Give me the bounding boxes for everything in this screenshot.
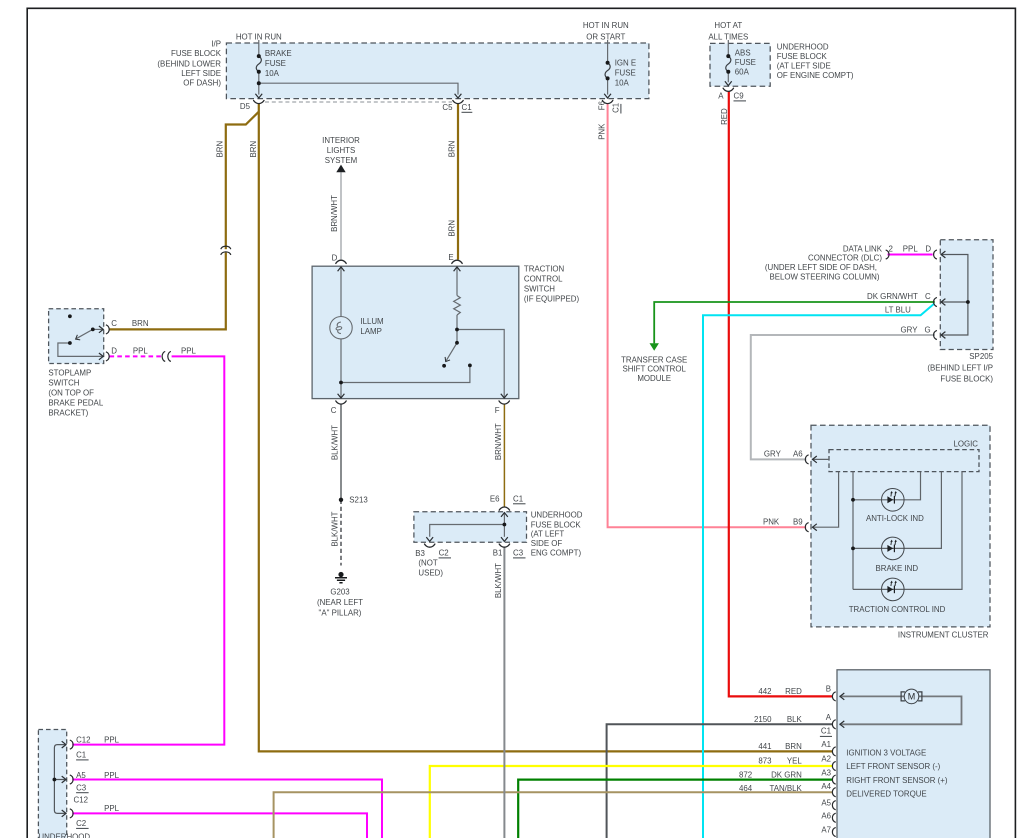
svg-text:A: A [718,92,724,101]
svg-text:442: 442 [758,687,771,696]
svg-text:SWITCH: SWITCH [524,284,555,293]
svg-text:C12: C12 [74,795,88,804]
svg-text:"A" PILLAR): "A" PILLAR) [319,608,362,617]
svg-text:S213: S213 [349,496,368,505]
svg-text:(IF EQUIPPED): (IF EQUIPPED) [524,294,580,303]
svg-text:BLK/WHT: BLK/WHT [331,511,340,546]
svg-text:B: B [826,685,831,694]
svg-text:PPL: PPL [104,735,120,744]
svg-text:C1: C1 [821,727,831,736]
svg-text:LEFT SIDE: LEFT SIDE [181,69,221,78]
svg-text:TAN/BLK: TAN/BLK [769,784,802,793]
svg-text:LT BLU: LT BLU [885,306,911,315]
svg-text:SYSTEM: SYSTEM [325,156,357,165]
svg-text:BLK/WHT: BLK/WHT [331,425,340,460]
svg-text:B1: B1 [493,549,503,558]
svg-text:BRACKET): BRACKET) [48,409,88,418]
svg-text:I/P: I/P [211,40,221,49]
svg-text:A: A [826,713,832,722]
svg-text:OF ENGINE COMPT): OF ENGINE COMPT) [777,71,854,80]
svg-text:TRACTION CONTROL IND: TRACTION CONTROL IND [849,605,946,614]
svg-text:E: E [448,253,453,262]
svg-text:GRY: GRY [764,450,782,459]
svg-text:IGN E: IGN E [615,59,636,68]
svg-text:UNDERHOOD: UNDERHOOD [38,833,90,838]
svg-text:60A: 60A [735,68,750,77]
svg-text:LIGHTS: LIGHTS [327,146,356,155]
svg-text:C1: C1 [513,495,523,504]
svg-text:LAMP: LAMP [360,327,382,336]
svg-text:CONTROL: CONTROL [524,274,563,283]
svg-text:FUSE: FUSE [735,58,756,67]
svg-text:YEL: YEL [787,757,803,766]
svg-text:DK GRN/WHT: DK GRN/WHT [867,292,918,301]
svg-text:C2: C2 [76,819,86,828]
svg-text:441: 441 [758,742,771,751]
svg-text:(AT LEFT SIDE: (AT LEFT SIDE [777,62,831,71]
svg-text:BRAKE: BRAKE [265,49,292,58]
svg-text:C9: C9 [734,92,745,101]
svg-text:BRN: BRN [249,141,258,158]
svg-text:BRN: BRN [447,220,456,237]
svg-text:TRANSFER CASE: TRANSFER CASE [621,355,687,364]
svg-text:ENG COMPT): ENG COMPT) [531,549,582,558]
svg-text:C1: C1 [76,751,86,760]
svg-text:(AT LEFT: (AT LEFT [531,530,565,539]
svg-text:A5: A5 [821,799,831,808]
svg-text:FUSE BLOCK: FUSE BLOCK [531,520,582,529]
svg-text:PNK: PNK [597,123,606,140]
svg-text:C: C [111,319,117,328]
svg-text:FUSE BLOCK): FUSE BLOCK) [940,374,993,383]
svg-text:BRN/WHT: BRN/WHT [330,195,339,232]
svg-text:BRN: BRN [215,141,224,158]
svg-text:ALL TIMES: ALL TIMES [708,32,748,41]
svg-text:CONNECTOR (DLC): CONNECTOR (DLC) [808,254,882,263]
svg-text:PPL: PPL [133,346,149,355]
svg-text:C3: C3 [513,549,524,558]
svg-text:HOT IN RUN: HOT IN RUN [583,21,629,30]
svg-text:FUSE BLOCK: FUSE BLOCK [171,49,222,58]
svg-text:UNDERHOOD: UNDERHOOD [777,43,829,52]
svg-text:IGNITION 3 VOLTAGE: IGNITION 3 VOLTAGE [846,749,926,758]
svg-text:C: C [331,406,337,415]
svg-text:BRAKE PEDAL: BRAKE PEDAL [48,399,103,408]
svg-text:D: D [332,254,338,263]
svg-text:D: D [111,346,117,355]
svg-text:PPL: PPL [104,771,120,780]
svg-text:10A: 10A [615,79,630,88]
svg-text:872: 872 [739,770,752,779]
svg-text:LEFT FRONT SENSOR (-): LEFT FRONT SENSOR (-) [846,762,940,771]
svg-text:2: 2 [889,245,893,254]
svg-text:SWITCH: SWITCH [48,379,79,388]
svg-text:A7: A7 [821,826,831,835]
svg-text:2150: 2150 [754,715,772,724]
svg-text:10A: 10A [265,69,280,78]
svg-text:BRN: BRN [132,319,149,328]
svg-text:B9: B9 [793,517,803,526]
svg-text:A4: A4 [821,782,831,791]
svg-text:RED: RED [720,108,729,125]
svg-text:ANTI-LOCK IND: ANTI-LOCK IND [866,514,924,523]
svg-text:OR START: OR START [586,32,625,41]
svg-text:BELOW STEERING COLUMN): BELOW STEERING COLUMN) [769,272,879,281]
svg-text:ABS: ABS [735,49,751,58]
svg-text:A5: A5 [76,771,86,780]
svg-text:C3: C3 [76,784,87,793]
svg-text:FUSE BLOCK: FUSE BLOCK [777,52,828,61]
svg-text:F: F [495,406,500,415]
svg-text:BLK: BLK [787,715,803,724]
svg-text:A6: A6 [821,811,831,820]
svg-text:INTERIOR: INTERIOR [322,136,360,145]
svg-text:C5: C5 [442,103,453,112]
svg-text:INSTRUMENT CLUSTER: INSTRUMENT CLUSTER [898,630,989,639]
svg-text:A3: A3 [821,768,831,777]
svg-text:A2: A2 [821,755,831,764]
svg-text:USED): USED) [418,568,443,577]
svg-text:C: C [925,292,931,301]
svg-text:UNDERHOOD: UNDERHOOD [531,511,583,520]
svg-text:PPL: PPL [181,346,197,355]
svg-text:(BEHIND LEFT I/P: (BEHIND LEFT I/P [927,363,993,372]
svg-text:F6: F6 [597,100,606,110]
svg-text:G: G [925,325,931,334]
svg-text:OF DASH): OF DASH) [183,79,221,88]
svg-text:SHIFT CONTROL: SHIFT CONTROL [622,365,686,374]
svg-text:A1: A1 [821,740,831,749]
svg-text:BRAKE IND: BRAKE IND [876,564,919,573]
svg-text:C1: C1 [612,103,621,113]
svg-text:(ON TOP OF: (ON TOP OF [48,389,94,398]
svg-text:PPL: PPL [903,245,919,254]
svg-text:B3: B3 [415,549,425,558]
svg-text:STOPLAMP: STOPLAMP [48,369,91,378]
svg-text:G203: G203 [330,588,350,597]
svg-text:D: D [925,245,931,254]
svg-text:873: 873 [758,757,772,766]
svg-text:MODULE: MODULE [637,374,671,383]
svg-text:(NEAR LEFT: (NEAR LEFT [317,598,363,607]
svg-text:D5: D5 [240,102,251,111]
svg-text:GRY: GRY [901,325,919,334]
svg-text:DELIVERED TORQUE: DELIVERED TORQUE [846,790,926,799]
svg-text:BRN: BRN [785,742,802,751]
svg-text:RIGHT FRONT SENSOR (+): RIGHT FRONT SENSOR (+) [846,776,948,785]
svg-text:HOT IN RUN: HOT IN RUN [236,32,282,41]
svg-text:(UNDER LEFT SIDE OF DASH,: (UNDER LEFT SIDE OF DASH, [765,263,877,272]
svg-text:SIDE OF: SIDE OF [531,539,563,548]
svg-text:DK GRN: DK GRN [771,770,802,779]
svg-text:E6: E6 [490,495,500,504]
svg-text:PPL: PPL [104,804,120,813]
svg-text:(BEHIND LOWER: (BEHIND LOWER [157,59,221,68]
svg-text:LOGIC: LOGIC [953,439,978,448]
svg-text:PNK: PNK [763,517,780,526]
svg-text:BRN: BRN [447,140,456,157]
svg-text:BLK/WHT: BLK/WHT [494,563,503,598]
svg-text:464: 464 [739,784,753,793]
svg-text:A6: A6 [793,450,803,459]
svg-text:C2: C2 [439,549,449,558]
svg-text:FUSE: FUSE [615,69,636,78]
svg-text:HOT AT: HOT AT [714,21,742,30]
svg-text:ILLUM: ILLUM [360,317,383,326]
svg-text:SP205: SP205 [969,352,993,361]
svg-text:C1: C1 [462,103,472,112]
svg-text:BRN/WHT: BRN/WHT [494,423,503,460]
svg-text:C12: C12 [76,735,90,744]
svg-text:FUSE: FUSE [265,59,286,68]
svg-text:RED: RED [785,687,802,696]
svg-text:TRACTION: TRACTION [524,264,565,273]
svg-text:(NOT: (NOT [418,558,437,567]
svg-text:DATA LINK: DATA LINK [843,245,883,254]
